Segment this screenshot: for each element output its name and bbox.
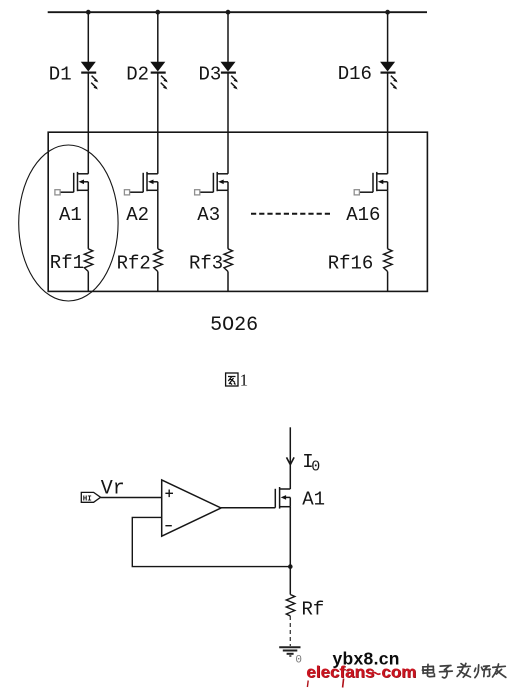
svg-text:0: 0 — [295, 654, 302, 666]
wire dashed Rf to ground — [289, 616, 291, 646]
resistor Rf3 — [224, 249, 233, 272]
watermark 电子发烧友 — [422, 663, 505, 678]
transistor A1 (output stage) — [275, 487, 290, 509]
svg-text:D3: D3 — [199, 63, 222, 85]
svg-text:A2: A2 — [126, 204, 149, 226]
wire feedback from minus input to source node — [132, 517, 290, 566]
wire rail to D3 anode — [227, 12, 229, 62]
LED D1 — [81, 62, 99, 90]
transistor A16 — [354, 172, 387, 195]
wire A1 source to junction — [289, 507, 291, 567]
LED D3 — [221, 62, 239, 90]
node junction rail/D3 column — [226, 10, 231, 15]
wire D1 cathode to A1 drain — [87, 73, 89, 174]
svg-text:Rf2: Rf2 — [117, 253, 151, 275]
LED D16 — [380, 62, 398, 90]
op-amp U1 — [162, 480, 221, 536]
ground — [279, 647, 300, 656]
wire Rf2 to box bottom — [157, 272, 159, 292]
node junction rail/D16 column — [385, 10, 390, 15]
svg-text:Rf1: Rf1 — [50, 252, 84, 274]
svg-text:com: com — [381, 662, 416, 681]
wire Rf3 to box bottom — [227, 272, 229, 292]
op-amp minus input mark — [165, 525, 171, 527]
wire rail to D2 anode — [157, 12, 159, 62]
op-amp plus input mark — [165, 490, 173, 498]
wire junction to Rf — [289, 567, 291, 595]
wire A3 source to Rf3 — [227, 190, 229, 249]
wire rail to D1 anode — [87, 12, 89, 62]
wire Rf16 to box bottom — [387, 272, 389, 292]
IC box 5026 — [48, 132, 427, 291]
wire Rf1 to box bottom — [87, 272, 89, 292]
caption figure 1 glyph — [226, 373, 238, 386]
current arrow I0 — [287, 457, 295, 464]
transistor A2 — [124, 172, 157, 195]
wire D3 cathode to A3 drain — [227, 73, 229, 174]
svg-text:Rf3: Rf3 — [189, 253, 223, 275]
svg-text:A3: A3 — [197, 204, 220, 226]
ellipse highlight around A1 cell — [19, 145, 118, 301]
svg-text:D1: D1 — [49, 63, 72, 85]
wire dashed between A3 and A16 — [251, 213, 332, 215]
svg-text:A16: A16 — [346, 204, 380, 226]
svg-text:HI: HI — [83, 495, 92, 503]
watermark elecfans.com — [306, 662, 417, 687]
wire I0 drain feed — [289, 427, 291, 489]
wire rail to D16 anode — [387, 12, 389, 62]
wire D2 cathode to A2 drain — [157, 73, 159, 174]
LED D2 — [150, 62, 168, 90]
svg-text:A1: A1 — [302, 489, 325, 511]
wire op-amp output to A1 gate — [221, 507, 275, 509]
node feedback/source junction — [288, 564, 293, 569]
wire A2 source to Rf2 — [157, 190, 159, 249]
node junction rail/D2 column — [155, 10, 160, 15]
resistor Rf1 — [84, 249, 93, 272]
transistor A3 — [195, 172, 228, 195]
svg-text:Rf: Rf — [302, 599, 325, 621]
svg-text:5O26: 5O26 — [210, 314, 258, 337]
node junction rail/D1 column — [86, 10, 91, 15]
input pad HI — [81, 492, 100, 503]
wire D16 cathode to A16 drain — [387, 73, 389, 174]
svg-text:0: 0 — [311, 459, 320, 476]
transistor A1 — [55, 172, 88, 195]
resistor Rf2 — [154, 249, 163, 272]
svg-text:D16: D16 — [338, 63, 372, 85]
svg-text:D2: D2 — [126, 63, 149, 85]
svg-text:elecfans: elecfans — [306, 662, 374, 681]
wire top supply rail — [48, 11, 427, 13]
wire Vr to op-amp plus — [101, 497, 162, 499]
resistor Rf — [286, 595, 295, 617]
wire A1 source to Rf1 — [87, 190, 89, 249]
wire A16 source to Rf16 — [387, 190, 389, 249]
svg-text:A1: A1 — [59, 204, 82, 226]
svg-text:Rf16: Rf16 — [328, 253, 374, 275]
svg-text:1: 1 — [240, 371, 249, 390]
resistor Rf16 — [384, 249, 393, 272]
